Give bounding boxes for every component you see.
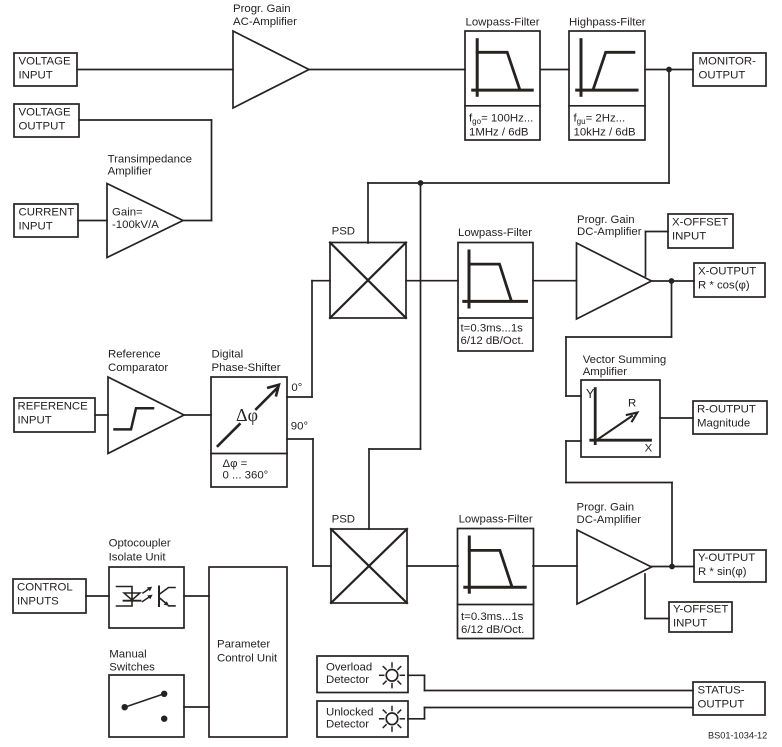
op-amp U6 Progr. Gain DC-Amplifier Y — [577, 502, 652, 605]
node PSD branch junction — [418, 180, 424, 186]
wire Y amplifier to Y-OUTPUT — [652, 566, 695, 568]
svg-text:1MHz / 6dB: 1MHz / 6dB — [469, 126, 529, 138]
svg-text:Lowpass-Filter: Lowpass-Filter — [459, 514, 533, 526]
mixer PSD1 — [330, 225, 406, 318]
mixer PSD2 — [331, 514, 407, 603]
box MONITOR-OUTPUT — [693, 53, 766, 86]
filter LP3 Lowpass-Filter Y channel — [458, 514, 534, 639]
svg-text:Amplifier: Amplifier — [583, 366, 628, 378]
svg-text:t=0.3ms...1s: t=0.3ms...1s — [461, 611, 524, 623]
svg-text:Manual: Manual — [109, 649, 146, 661]
svg-text:Unlocked: Unlocked — [326, 707, 374, 719]
switch S1 Manual Switches — [109, 649, 184, 738]
svg-text:Amplifier: Amplifier — [108, 165, 153, 177]
svg-text:Optocoupler: Optocoupler — [109, 537, 171, 549]
svg-text:Gain=: Gain= — [112, 207, 143, 219]
svg-text:0 ... 360°: 0 ... 360° — [223, 470, 269, 482]
svg-text:R * cos(φ): R * cos(φ) — [698, 279, 750, 291]
svg-text:Transimpedance: Transimpedance — [108, 154, 192, 166]
wire Y to vector horizontal — [566, 482, 672, 484]
wire unlocked to status output — [425, 707, 694, 709]
wire 0 deg horizontal — [287, 396, 312, 398]
op-amp U1 Progr. Gain AC-Amplifier — [233, 3, 309, 108]
wire unlocked up — [424, 708, 426, 719]
svg-text:Δφ =: Δφ = — [223, 458, 248, 470]
op-amp U2 Transimpedance Amplifier — [107, 154, 192, 258]
svg-text:Overload: Overload — [326, 662, 372, 674]
wire voltage output vertical — [211, 120, 213, 221]
wire voltage input to AC amplifier — [77, 69, 233, 71]
box Parameter Control Unit — [209, 567, 287, 737]
wire into vector X input — [566, 440, 581, 442]
wire PSD2 to LP3 — [407, 565, 458, 567]
optocoupler U8 Isolate Unit — [109, 537, 184, 628]
svg-text:X: X — [645, 443, 653, 455]
svg-text:MONITOR-: MONITOR- — [699, 56, 757, 68]
svg-text:R * sin(φ): R * sin(φ) — [698, 566, 747, 578]
wire branch horizontal — [369, 448, 421, 450]
svg-text:Progr. Gain: Progr. Gain — [577, 214, 635, 226]
svg-text:90°: 90° — [291, 420, 308, 432]
wire LP2 to X amplifier — [533, 280, 577, 282]
svg-text:CONTROL: CONTROL — [17, 582, 73, 594]
box VOLTAGE OUTPUT — [14, 104, 79, 137]
wire Y junction up — [671, 483, 673, 567]
svg-text:Y-OFFSET: Y-OFFSET — [673, 604, 728, 616]
svg-text:INPUT: INPUT — [672, 230, 706, 242]
svg-text:DC-Amplifier: DC-Amplifier — [577, 514, 642, 526]
svg-text:X-OUTPUT: X-OUTPUT — [698, 266, 756, 278]
phase shifter U4 Digital Phase-Shifter — [211, 349, 308, 488]
svg-text:6/12 dB/Oct.: 6/12 dB/Oct. — [461, 624, 524, 636]
svg-text:Y: Y — [586, 387, 595, 401]
svg-text:INPUT: INPUT — [19, 220, 53, 232]
wire into vector Y input — [566, 395, 581, 397]
svg-text:-100kV/A: -100kV/A — [112, 219, 159, 231]
svg-text:X-OFFSET: X-OFFSET — [672, 217, 728, 229]
wire control inputs to optocoupler — [86, 595, 109, 597]
svg-text:CURRENT: CURRENT — [19, 207, 75, 219]
svg-text:OUTPUT: OUTPUT — [698, 698, 745, 710]
svg-text:Phase-Shifter: Phase-Shifter — [212, 362, 281, 374]
svg-text:Lowpass-Filter: Lowpass-Filter — [458, 227, 532, 239]
svg-text:INPUTS: INPUTS — [17, 595, 59, 607]
unlocked detector with lamp — [317, 701, 408, 737]
wire LP1 to HP1 — [541, 69, 569, 71]
svg-text:PSD: PSD — [332, 225, 355, 237]
wire 90 deg vertical — [312, 439, 314, 566]
wire overload out — [408, 674, 425, 676]
svg-text:Progr. Gain: Progr. Gain — [577, 502, 635, 514]
svg-text:Digital: Digital — [212, 349, 244, 361]
wire junction down — [668, 70, 670, 184]
box R-OUTPUT Magnitude — [693, 401, 767, 434]
svg-text:VOLTAGE: VOLTAGE — [19, 107, 72, 119]
wire LP3 to Y amplifier — [533, 565, 577, 567]
svg-text:AC-Amplifier: AC-Amplifier — [233, 16, 297, 28]
svg-text:Progr. Gain: Progr. Gain — [233, 3, 291, 15]
svg-text:Δφ: Δφ — [236, 405, 258, 425]
svg-text:REFERENCE: REFERENCE — [18, 401, 89, 413]
wire transimpedance out — [183, 220, 212, 222]
filter LP2 Lowpass-Filter X channel — [458, 227, 533, 351]
svg-text:0°: 0° — [291, 382, 302, 394]
svg-text:Control Unit: Control Unit — [217, 652, 278, 664]
wire horizontal to PSD feed — [368, 182, 669, 184]
svg-text:INPUT: INPUT — [673, 617, 707, 629]
wire branch down to PSD2 — [420, 183, 422, 449]
svg-text:BS01-1034-12: BS01-1034-12 — [708, 730, 767, 740]
wire switches to parameter control unit — [184, 706, 209, 708]
wire overload down — [424, 675, 426, 690]
wire X amplifier to X-OUTPUT — [652, 280, 695, 282]
op-amp U5 Progr. Gain DC-Amplifier X — [577, 214, 652, 319]
node monitor junction — [666, 67, 672, 73]
svg-text:Magnitude: Magnitude — [697, 417, 750, 429]
wire down into PSD2 — [368, 449, 370, 529]
wire AC amplifier to LP1 — [309, 69, 465, 71]
svg-text:R-OUTPUT: R-OUTPUT — [697, 404, 756, 416]
svg-text:Detector: Detector — [326, 674, 369, 686]
box STATUS-OUTPUT — [693, 682, 765, 715]
svg-text:DC-Amplifier: DC-Amplifier — [577, 226, 642, 238]
svg-text:OUTPUT: OUTPUT — [699, 69, 746, 81]
wire vector to R-OUTPUT — [660, 417, 693, 419]
svg-text:INPUT: INPUT — [19, 69, 53, 81]
box X-OUTPUT R*cos — [694, 263, 765, 297]
svg-text:STATUS-: STATUS- — [698, 685, 745, 697]
filter HP1 Highpass-Filter — [569, 17, 646, 140]
wire 0 deg vertical — [311, 281, 313, 397]
wire 90 deg into PSD2 — [313, 565, 331, 567]
svg-text:OUTPUT: OUTPUT — [19, 120, 66, 132]
svg-text:Vector Summing: Vector Summing — [583, 354, 667, 366]
svg-text:Switches: Switches — [109, 662, 155, 674]
box VOLTAGE INPUT — [14, 53, 77, 86]
svg-text:Highpass-Filter: Highpass-Filter — [569, 17, 646, 29]
wire vector X vertical — [565, 441, 567, 483]
filter LP1 Lowpass-Filter — [465, 17, 540, 140]
svg-text:Y-OUTPUT: Y-OUTPUT — [698, 552, 755, 564]
wire X to vector vertical — [565, 337, 567, 396]
op-amp U7 Vector Summing Amplifier — [581, 354, 666, 457]
box CONTROL INPUTS — [13, 579, 86, 613]
wire PSD1 to LP2 — [406, 280, 458, 282]
svg-text:PSD: PSD — [332, 514, 355, 526]
wire X offset horizontal — [646, 231, 669, 233]
svg-text:Reference: Reference — [108, 349, 161, 361]
wire down into PSD1 — [367, 183, 369, 243]
wire unlocked out — [408, 718, 425, 720]
svg-text:6/12 dB/Oct.: 6/12 dB/Oct. — [461, 335, 524, 347]
wire Y offset vertical — [644, 574, 646, 619]
svg-text:Isolate Unit: Isolate Unit — [109, 552, 167, 564]
svg-text:VOLTAGE: VOLTAGE — [19, 56, 72, 68]
comparator U3 Reference Comparator — [108, 349, 184, 454]
wire X to vector horizontal — [566, 336, 672, 338]
wire optocoupler to parameter control unit — [184, 595, 209, 597]
svg-text:Parameter: Parameter — [217, 639, 270, 651]
box CURRENT INPUT — [14, 204, 78, 237]
wire 0 deg into PSD1 — [312, 280, 330, 282]
svg-text:Lowpass-Filter: Lowpass-Filter — [466, 17, 540, 29]
wire reference input to comparator — [95, 414, 108, 416]
wire HP1 to monitor output — [645, 69, 693, 71]
node Y output junction — [669, 564, 675, 570]
node X output junction — [669, 278, 675, 284]
svg-text:R: R — [628, 398, 636, 410]
wire voltage output horizontal — [79, 119, 212, 121]
wire X junction down — [671, 281, 673, 337]
box Y-OFFSET INPUT — [669, 602, 732, 632]
svg-text:Comparator: Comparator — [108, 362, 168, 374]
overload detector with lamp — [317, 656, 408, 693]
wire comparator to phase shifter — [184, 414, 211, 416]
wire 90 deg horizontal — [287, 438, 313, 440]
wire overload to status output — [425, 690, 694, 692]
box X-OFFSET INPUT — [668, 214, 733, 248]
svg-text:t=0.3ms...1s: t=0.3ms...1s — [461, 322, 524, 334]
svg-text:INPUT: INPUT — [18, 414, 52, 426]
svg-text:10kHz / 6dB: 10kHz / 6dB — [574, 126, 636, 138]
wire current input to transimpedance — [78, 220, 107, 222]
wire Y offset horizontal — [645, 618, 669, 620]
svg-text:Detector: Detector — [326, 719, 369, 731]
wire X offset vertical — [645, 232, 647, 277]
box REFERENCE INPUT — [14, 398, 95, 432]
box Y-OUTPUT R*sin — [694, 550, 766, 582]
